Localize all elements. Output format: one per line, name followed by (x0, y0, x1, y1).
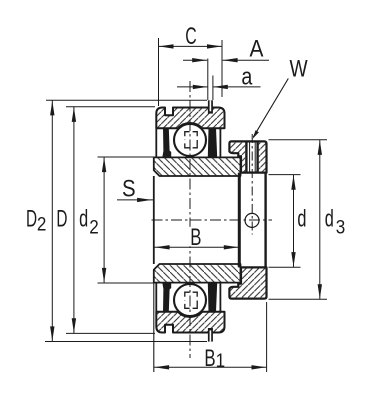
dimension A line (183, 59, 207, 61)
svg-text:d: d (79, 206, 88, 233)
collar bore silhouette right (264, 173, 266, 268)
seal top right (208, 128, 217, 157)
dimension B1 extension lines (153, 281, 155, 372)
leader S arrow (117, 199, 153, 201)
dimension a extension line (pin right edge) (212, 76, 214, 101)
svg-text:d: d (297, 205, 306, 232)
seal bottom right (208, 283, 217, 312)
svg-text:D: D (56, 206, 67, 232)
grub screw axis (251, 134, 253, 235)
inner ring bottom section (154, 264, 241, 283)
svg-text:B: B (204, 345, 215, 372)
dimension d2 extension lines (98, 156, 154, 158)
dimension C extension lines (158, 38, 160, 106)
dimension d3 extension lines (269, 139, 328, 141)
svg-text:B: B (190, 224, 201, 251)
inner ring right face silhouette (238, 173, 241, 268)
outer ring top section (156, 108, 224, 129)
seal bottom left (162, 283, 171, 312)
leader W (253, 79, 288, 138)
ball top (174, 124, 206, 156)
dimension D2 extension lines (46, 99, 207, 101)
dimension D line (73, 107, 75, 334)
dimension A/a extension line (pin left edge) (207, 59, 209, 101)
horizontal centerline (152, 219, 273, 221)
lube pin bottom (208, 328, 213, 342)
grub screw walls (245, 141, 247, 172)
ball top dashed race square (185, 132, 197, 148)
svg-text:W: W (289, 55, 308, 83)
dimension d3 line (319, 140, 321, 299)
dimension d2 line (103, 157, 105, 283)
outer ring left face lower edge (155, 128, 157, 157)
dimension d extension lines (269, 174, 301, 176)
svg-text:2: 2 (89, 216, 99, 237)
grub screw thread lines (249, 141, 251, 172)
eccentric locking collar top section (229, 141, 266, 172)
dimension D extension lines (66, 106, 155, 108)
vertical centerline (189, 81, 191, 358)
grub screw W bore (white channel) (245, 143, 259, 172)
svg-text:d: d (325, 205, 334, 232)
svg-text:C: C (185, 24, 196, 50)
svg-text:1: 1 (216, 350, 226, 371)
svg-text:2: 2 (37, 214, 47, 235)
label B (187, 227, 205, 247)
svg-text:D: D (26, 206, 37, 232)
dimension d line (293, 175, 295, 268)
grub screw position circle (245, 213, 259, 227)
dimension C line (159, 45, 223, 47)
ball bottom (174, 284, 206, 316)
dimension a line (177, 86, 208, 88)
svg-text:a: a (241, 63, 253, 90)
seal top left (162, 128, 171, 157)
dimension B line (155, 246, 239, 248)
inner ring top section (154, 157, 241, 176)
inner ring bore silhouette left (153, 176, 155, 264)
outer ring right recess edge (219, 128, 221, 158)
ball bottom dashed race square (185, 292, 197, 308)
outer ring bottom section (156, 312, 224, 333)
svg-text:S: S (122, 175, 136, 202)
lube pin top (208, 100, 213, 113)
svg-text:3: 3 (336, 217, 346, 238)
dimension B1 line (154, 366, 267, 368)
eccentric locking collar bottom section (229, 267, 266, 298)
svg-text:A: A (250, 35, 264, 62)
dimension D2 line (51, 100, 53, 341)
